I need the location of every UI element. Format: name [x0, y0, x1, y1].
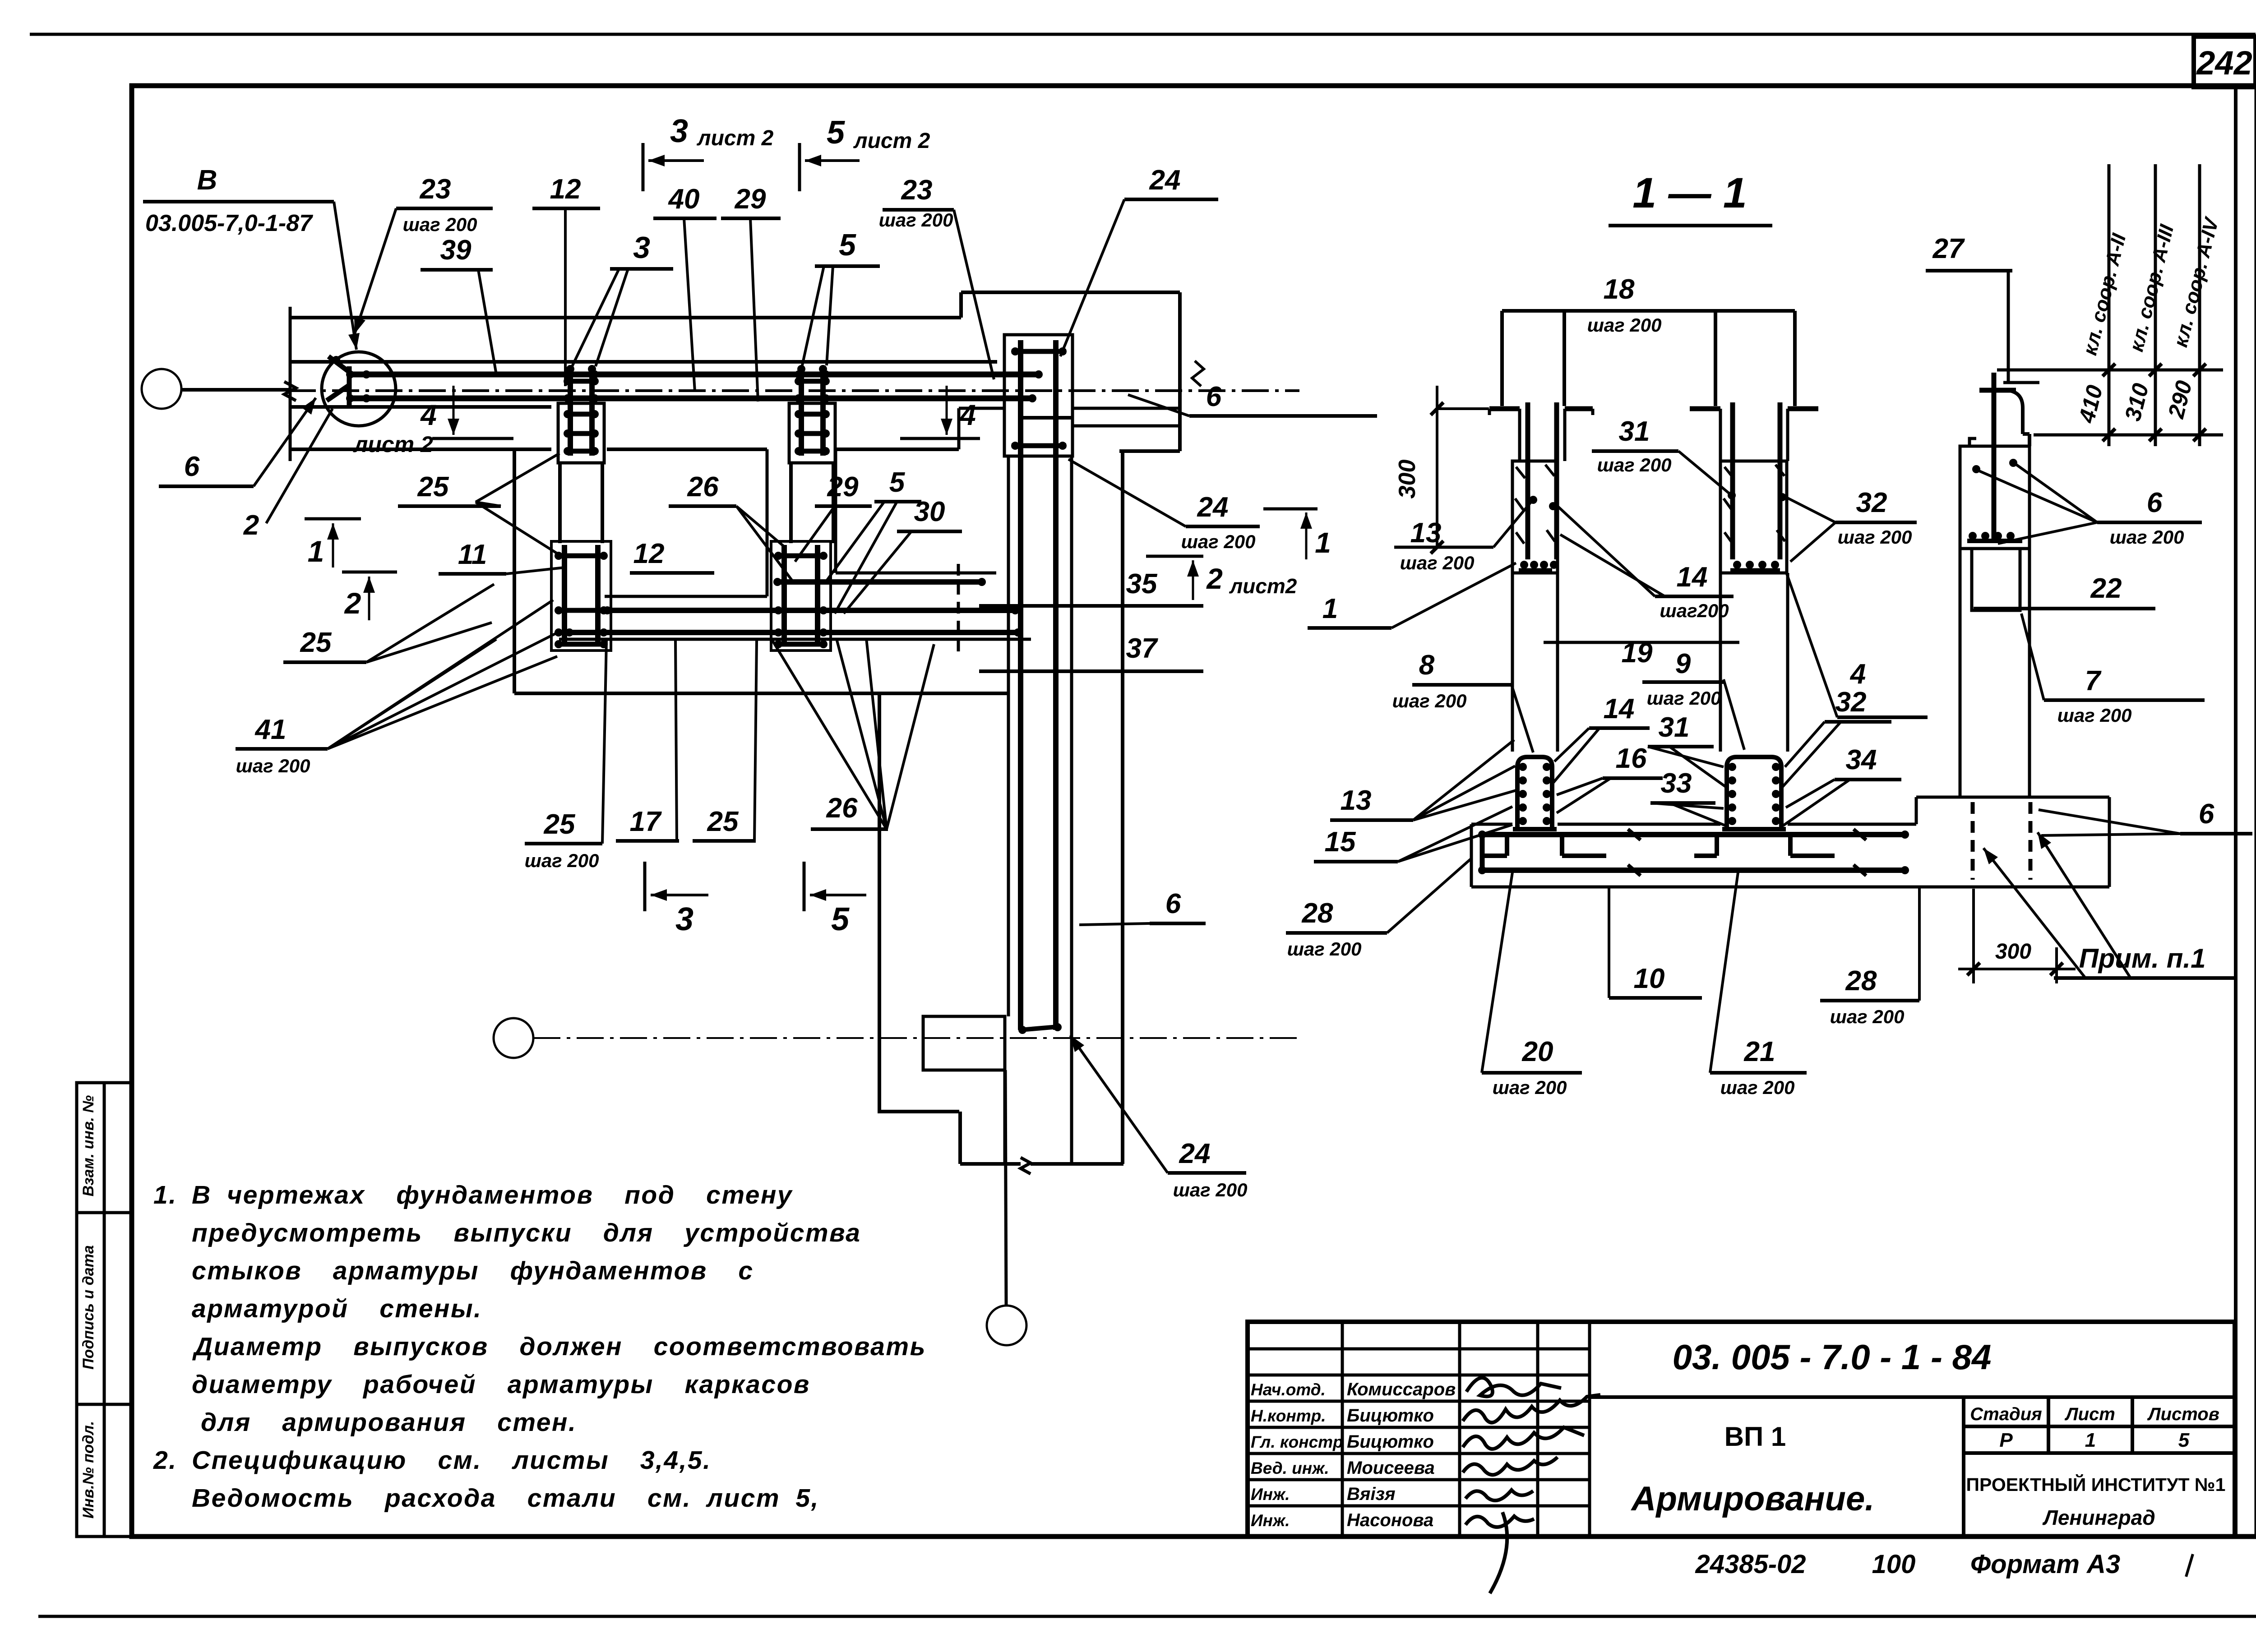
svg-text:шаг 200: шаг 200	[1647, 688, 1721, 709]
section mark 5 list2 top	[798, 143, 801, 191]
section mark 1 up-right	[1263, 508, 1318, 511]
wall C rebar	[1992, 373, 1997, 543]
svg-text:39: 39	[440, 235, 472, 266]
grid bubble B lower	[494, 1018, 533, 1058]
svg-text:10: 10	[1634, 963, 1665, 994]
leaders 33	[1650, 803, 1724, 808]
wall A cage bottom dots	[1520, 561, 1528, 569]
lower band rebar bottom	[567, 630, 1021, 635]
lower-right pocket	[923, 1016, 1005, 1070]
leader 2 left	[266, 409, 333, 523]
svg-text:34: 34	[1846, 744, 1877, 775]
hidden dashed vertical	[957, 564, 960, 656]
leader 28 right	[1918, 887, 1921, 1001]
rebar dots on band at cages	[564, 370, 572, 378]
wall C top	[1979, 388, 2006, 393]
leaders 25 lower	[366, 584, 494, 662]
footing outline bottom	[1471, 886, 2109, 889]
leaders 34	[1786, 780, 1835, 808]
plan right outline upper	[1178, 292, 1182, 451]
title block signatures squiggles	[1466, 1378, 1561, 1396]
dim 300 lower	[1972, 889, 1975, 983]
svg-text:Инж.: Инж.	[1251, 1485, 1290, 1504]
svg-text:Насонова: Насонова	[1347, 1510, 1433, 1530]
wall A faces	[1518, 409, 1521, 461]
leader 25 bottom	[602, 641, 606, 844]
dashed bars right block	[1971, 802, 1975, 880]
section lower cage A	[1517, 757, 1552, 829]
svg-text:шаг 200: шаг 200	[1597, 454, 1672, 475]
svg-text:12: 12	[550, 174, 581, 205]
wall B flange	[1690, 406, 1720, 411]
leader 6 left	[254, 398, 316, 486]
svg-text:Вяізя: Вяізя	[1347, 1484, 1396, 1504]
svg-text:33: 33	[1661, 768, 1692, 799]
leader 12 top	[564, 208, 567, 386]
svg-text:25: 25	[707, 806, 739, 837]
svg-text:6: 6	[2147, 487, 2163, 518]
section mark 1 up-left	[305, 517, 361, 521]
svg-text:1: 1	[1315, 526, 1331, 559]
wall A hatch	[1516, 467, 1525, 478]
page number box 242	[2194, 37, 2256, 87]
wall band bottom edge seg3	[836, 448, 959, 451]
svg-text:предусмотреть выпуски для у: предусмотреть выпуски для устройства	[192, 1218, 861, 1247]
lower band top face	[605, 595, 767, 598]
svg-text:для армирования стен.: для армирования стен.	[201, 1408, 577, 1437]
svg-text:1 — 1: 1 — 1	[1632, 169, 1747, 217]
leader 29 mid	[795, 506, 835, 562]
svg-text:2: 2	[243, 510, 259, 541]
leaders 26 bottom	[772, 641, 887, 829]
detail circle B	[322, 352, 396, 426]
section mark 2 up-left	[342, 571, 397, 574]
strip rebar bottom dots	[1018, 1026, 1026, 1034]
svg-text:20: 20	[1522, 1036, 1553, 1067]
svg-text:стыков арматуры фундаментов: стыков арматуры фундаментов с	[192, 1256, 754, 1285]
svg-text:24385-02: 24385-02	[1695, 1550, 1806, 1579]
room outline bottom	[514, 692, 1008, 695]
leaders 5 mid	[802, 266, 824, 365]
footing outline top	[1471, 823, 1512, 826]
svg-text:21: 21	[1744, 1036, 1775, 1067]
svg-text:16: 16	[1616, 743, 1647, 774]
svg-text:Диаметр выпусков должен соо: Диаметр выпусков должен соответствовать	[192, 1332, 926, 1361]
svg-text:шаг 200: шаг 200	[1830, 1006, 1905, 1027]
wall C top line right	[2003, 381, 2039, 384]
leader 13 upper	[1493, 502, 1531, 547]
footing rebar left hook	[1480, 835, 1485, 870]
sheet top trim line	[30, 33, 2256, 36]
wall band break symbol	[284, 382, 296, 401]
lower band bottom face	[559, 638, 1031, 641]
svg-text:шаг 200: шаг 200	[1400, 552, 1475, 573]
notes text block	[153, 1181, 926, 1513]
svg-text:Лист: Лист	[2064, 1404, 2115, 1424]
band right faces	[1073, 407, 1180, 410]
band bottom notch	[957, 408, 961, 449]
wall band bottom edge seg2	[607, 448, 767, 451]
svg-text:Армирование.: Армирование.	[1631, 1480, 1875, 1518]
svg-text:14: 14	[1604, 693, 1635, 724]
plan step horizontal	[1119, 449, 1180, 453]
wall B cage bottom dots	[1733, 561, 1741, 569]
lower-right block bottom	[960, 1162, 1021, 1166]
leader 30	[844, 531, 911, 614]
leader 31 upper	[1678, 451, 1733, 496]
svg-text:Комиссаров: Комиссаров	[1347, 1380, 1456, 1399]
column cage lower 2	[771, 541, 831, 651]
leader 39	[478, 270, 496, 374]
leader 28 left	[1387, 858, 1472, 933]
dim 300 upper	[1436, 386, 1438, 547]
left margin cell line 2	[77, 1403, 132, 1406]
svg-text:4: 4	[1849, 659, 1866, 690]
bracket 18 line	[1502, 309, 1795, 313]
svg-text:шаг200: шаг200	[1660, 600, 1729, 621]
wall C inner box	[1972, 549, 2020, 610]
strip rebar pair	[1018, 454, 1023, 1030]
svg-text:32: 32	[1835, 687, 1867, 718]
svg-text:31: 31	[1619, 416, 1650, 447]
section mark 3 bottom	[643, 862, 647, 911]
leader B to detail	[334, 202, 356, 350]
grid bubble A left	[142, 369, 181, 409]
leader 29 top	[750, 218, 758, 401]
axis line vertical bottom	[1004, 1016, 1006, 1070]
svg-text:6: 6	[2199, 798, 2214, 830]
svg-text:6: 6	[1165, 888, 1181, 919]
svg-text:37: 37	[1126, 633, 1158, 664]
svg-text:Р: Р	[1999, 1429, 2013, 1451]
svg-text:3: 3	[675, 901, 693, 937]
svg-text:5: 5	[839, 228, 856, 262]
detail B dots	[346, 370, 354, 378]
footing L-feet wall B	[1715, 835, 1719, 856]
svg-text:29: 29	[735, 184, 766, 215]
leaders 6 right	[1977, 470, 2097, 522]
svg-text:шаг 200: шаг 200	[2057, 705, 2132, 726]
leaders 15	[1398, 807, 1512, 862]
svg-text:28: 28	[1302, 898, 1333, 929]
title block table	[1248, 1322, 2235, 1537]
axis line horizontal lower	[533, 1037, 1299, 1039]
svg-text:15: 15	[1325, 826, 1356, 858]
leaders 41	[328, 600, 553, 749]
svg-text:100: 100	[1872, 1550, 1916, 1579]
svg-text:5: 5	[2178, 1429, 2190, 1451]
leader 6 upper right	[1128, 395, 1189, 416]
svg-text:Гл. констр: Гл. констр	[1251, 1433, 1343, 1451]
leader 25 br	[754, 641, 757, 841]
svg-text:Прим. п.1: Прим. п.1	[2079, 943, 2206, 974]
detail B bent rebar	[327, 356, 350, 405]
svg-text:Подпись и дата: Подпись и дата	[80, 1245, 97, 1370]
leaders 13 lower	[1413, 766, 1515, 820]
section mark 3 list2 top	[642, 143, 645, 191]
leader 9	[1724, 679, 1744, 750]
svg-text:лист 2: лист 2	[853, 129, 930, 153]
leader 23R	[954, 210, 994, 379]
svg-text:арматурой стены.: арматурой стены.	[192, 1294, 482, 1323]
svg-text:Спецификацию см. листы 3,4,: Спецификацию см. листы 3,4,5.	[192, 1446, 711, 1475]
svg-text:41: 41	[254, 714, 287, 745]
leader 40	[684, 218, 695, 392]
svg-text:26: 26	[826, 793, 858, 824]
footing rebar breaks	[1628, 829, 1641, 840]
section lower cage B	[1727, 757, 1781, 829]
dim block lines	[2108, 164, 2111, 446]
leaders 5 mid2	[826, 502, 884, 582]
band right break	[1192, 361, 1204, 386]
svg-text:31: 31	[1659, 712, 1690, 743]
leader 20	[1482, 872, 1512, 1073]
svg-text:шаг 200: шаг 200	[236, 755, 310, 776]
svg-text:24: 24	[1197, 492, 1229, 523]
svg-text:14: 14	[1677, 562, 1708, 593]
leaders 3 mid	[572, 269, 619, 366]
svg-text:3: 3	[633, 231, 650, 265]
leader 24 right	[1068, 459, 1186, 526]
svg-text:300: 300	[1995, 940, 2031, 964]
svg-text:Ведомость расхода стали см.: Ведомость расхода стали см. лист 5,	[192, 1484, 819, 1513]
wall band bottom edge seg1	[290, 448, 551, 451]
wall A cage dots	[1529, 496, 1537, 504]
svg-text:26: 26	[687, 471, 719, 503]
wall B rebar	[1730, 402, 1735, 559]
svg-text:6: 6	[1206, 381, 1222, 412]
section mark 5 bottom	[803, 862, 806, 911]
svg-text:Нач.отд.: Нач.отд.	[1251, 1380, 1326, 1399]
wall B faces	[1719, 409, 1722, 461]
wall band inner face lower	[290, 405, 551, 409]
leaders 25 upper	[476, 453, 559, 502]
inner right vertical rule	[2234, 87, 2238, 1537]
column cage lower 1	[551, 541, 611, 651]
leaders 6 right lower	[2039, 810, 2180, 834]
svg-text:1: 1	[2085, 1429, 2096, 1451]
svg-text:Стадия: Стадия	[1970, 1404, 2042, 1424]
svg-text:Инж.: Инж.	[1251, 1511, 1290, 1530]
lower band rebar top	[605, 608, 1018, 613]
svg-text:4: 4	[420, 399, 437, 431]
svg-text:13: 13	[1341, 785, 1372, 816]
svg-text:5: 5	[889, 467, 906, 498]
column cage upper 1	[558, 403, 604, 463]
svg-text:27: 27	[1932, 233, 1965, 264]
lower-right block left vertical	[878, 693, 881, 1112]
corner cage plan	[1004, 335, 1073, 456]
svg-text:242: 242	[2196, 44, 2252, 82]
leaders Prim	[1983, 848, 2085, 978]
svg-text:Моисеева: Моисеева	[1347, 1458, 1435, 1478]
leaders 14 mid	[1558, 506, 1655, 596]
bracket 18 legs	[1500, 311, 1504, 406]
leader 17 bottom	[675, 641, 677, 841]
wall band top edge right	[961, 291, 1180, 294]
wall A lower faces	[1511, 573, 1514, 752]
svg-text:Формат А3: Формат А3	[1970, 1550, 2120, 1579]
section mark 2 list2 right	[1146, 555, 1203, 558]
leader 21	[1710, 872, 1738, 1073]
grid bubble C bottom	[987, 1306, 1026, 1345]
leaders 16	[1557, 778, 1603, 795]
wall B hatch	[1724, 467, 1734, 478]
svg-text:3: 3	[670, 113, 688, 149]
svg-text:шаг 200: шаг 200	[1181, 531, 1256, 552]
svg-text:Инв.№ подл.: Инв.№ подл.	[80, 1421, 97, 1519]
lower-right block step h	[878, 1110, 959, 1113]
leaders 32 lower	[1785, 722, 1825, 767]
svg-text:8: 8	[1419, 650, 1435, 681]
svg-text:Н.контр.: Н.контр.	[1251, 1407, 1326, 1425]
svg-text:25: 25	[300, 627, 332, 658]
wall C cage dots	[1972, 465, 1980, 473]
wall B cage dots	[1728, 491, 1736, 499]
leaders 26 mid	[736, 506, 786, 548]
svg-text:6: 6	[184, 451, 200, 482]
svg-text:29: 29	[827, 471, 859, 503]
leader 1 section	[1392, 563, 1516, 628]
pocket room verticals mid	[601, 463, 604, 543]
svg-text:шаг 200: шаг 200	[525, 850, 599, 871]
svg-text:ПРОЕКТНЫЙ ИНСТИТУТ №1: ПРОЕКТНЫЙ ИНСТИТУТ №1	[1966, 1474, 2226, 1495]
svg-text:1: 1	[1322, 593, 1338, 624]
leader 24 bottom	[1070, 1035, 1168, 1173]
right block outline	[1915, 797, 1918, 824]
footing outline left	[1470, 824, 1473, 887]
svg-text:24: 24	[1149, 165, 1181, 196]
svg-text:40: 40	[668, 184, 700, 215]
wall band step connector	[959, 292, 963, 318]
svg-text:2: 2	[1206, 563, 1223, 595]
svg-text:2.: 2.	[153, 1446, 177, 1475]
wall C lower faces	[1959, 549, 1962, 797]
leader 8	[1512, 685, 1533, 752]
svg-text:4: 4	[959, 399, 976, 431]
svg-text:11: 11	[458, 539, 487, 570]
svg-text:5: 5	[827, 115, 845, 151]
svg-text:Бицютко: Бицютко	[1347, 1432, 1434, 1452]
svg-text:шаг 200: шаг 200	[2110, 526, 2184, 548]
leaders 32 upper	[1784, 496, 1835, 522]
wall A flange	[1489, 406, 1520, 411]
svg-text:35: 35	[1126, 568, 1158, 600]
svg-text:23: 23	[901, 175, 933, 206]
svg-text:Ленинград: Ленинград	[2042, 1506, 2155, 1529]
svg-text:18: 18	[1604, 274, 1635, 305]
wall band top edge left	[290, 316, 961, 319]
svg-text:32: 32	[1856, 487, 1887, 518]
svg-text:12: 12	[633, 538, 665, 569]
svg-text:шаг 200: шаг 200	[879, 209, 953, 231]
svg-text:шаг 200: шаг 200	[1287, 938, 1362, 960]
svg-text:В: В	[197, 165, 217, 196]
axis line horizontal upper	[181, 388, 289, 392]
svg-text:шаг 200: шаг 200	[403, 214, 477, 235]
svg-text:шаг 200: шаг 200	[1493, 1077, 1567, 1098]
svg-text:Взам. инв. №: Взам. инв. №	[80, 1095, 97, 1197]
leader 7	[2021, 614, 2044, 700]
leader 6 lower right	[1079, 923, 1150, 925]
footing L-feet wall A	[1505, 835, 1509, 856]
svg-text:Листов: Листов	[2147, 1404, 2219, 1424]
wall A cage box	[1512, 461, 1558, 573]
line 19	[1544, 641, 1739, 644]
svg-text:Бицютко: Бицютко	[1347, 1406, 1434, 1426]
leader 24 top	[1060, 199, 1124, 356]
svg-text:25: 25	[544, 809, 576, 840]
svg-text:1: 1	[308, 535, 324, 568]
svg-text:300: 300	[1394, 460, 1420, 499]
svg-text:7: 7	[2085, 665, 2102, 697]
svg-text:шаг 200: шаг 200	[1173, 1179, 1248, 1200]
svg-text:шаг 200: шаг 200	[1587, 314, 1662, 336]
lower band rebar end dots	[1011, 606, 1019, 614]
svg-text:22: 22	[2090, 573, 2122, 604]
svg-text:1.: 1.	[153, 1181, 177, 1209]
svg-text:17: 17	[630, 806, 662, 837]
svg-text:шаг 200: шаг 200	[1392, 690, 1467, 711]
plan strip inner right	[1070, 456, 1073, 1164]
svg-text:30: 30	[914, 496, 945, 527]
wall C cage bottom bar	[1967, 539, 2022, 543]
leader 11	[506, 568, 564, 574]
detail B short bars	[347, 372, 377, 377]
svg-text:28: 28	[1845, 965, 1877, 997]
sheet bottom trim line	[38, 1615, 2256, 1618]
svg-text:лист2: лист2	[1229, 574, 1297, 598]
wall band rebar bar lower	[347, 396, 1034, 401]
svg-text:23: 23	[420, 174, 451, 205]
svg-text:шаг 200: шаг 200	[1838, 526, 1912, 548]
svg-text:5: 5	[831, 901, 850, 937]
leaders 31 lower	[1648, 747, 1724, 767]
wall A rebar	[1526, 402, 1530, 559]
svg-text:24: 24	[1179, 1138, 1211, 1169]
svg-text:03.005-7,0-1-87: 03.005-7,0-1-87	[145, 210, 313, 236]
svg-text:2: 2	[344, 586, 361, 620]
svg-text:9: 9	[1675, 648, 1691, 679]
svg-text:25: 25	[417, 471, 449, 503]
lower-right block step v	[958, 1112, 962, 1164]
footing rebar bottom	[1480, 868, 1908, 873]
left margin column divider	[103, 1083, 106, 1537]
svg-text:шаг 200: шаг 200	[1720, 1077, 1795, 1098]
leader 4 section	[1787, 574, 1837, 717]
svg-text:лист 2: лист 2	[353, 432, 433, 457]
footing rebar top	[1480, 832, 1908, 837]
wall B cage box	[1720, 461, 1787, 573]
plan right outline lower	[1121, 451, 1124, 1164]
left margin cell line 1	[77, 1211, 132, 1214]
column cage upper 2	[789, 403, 835, 463]
leader 10	[1608, 887, 1610, 998]
wall band left end tick	[289, 307, 292, 461]
svg-text:лист 2: лист 2	[697, 126, 774, 150]
svg-text:ВП 1: ВП 1	[1724, 1421, 1786, 1452]
leaders 14 lower	[1554, 728, 1589, 761]
wall C cage box	[1960, 446, 2029, 549]
svg-text:19: 19	[1622, 637, 1653, 669]
svg-text:диаметру рабочей арматуры к: диаметру рабочей арматуры каркасов	[192, 1370, 810, 1399]
svg-text:Вед. инж.: Вед. инж.	[1251, 1459, 1329, 1477]
plan strip inner left	[1007, 456, 1010, 1016]
footing rebar dots	[1478, 831, 1486, 839]
wall band inner face upper	[290, 360, 997, 364]
wall B lower faces	[1719, 573, 1722, 752]
wall band rebar bar upper	[347, 372, 1041, 378]
